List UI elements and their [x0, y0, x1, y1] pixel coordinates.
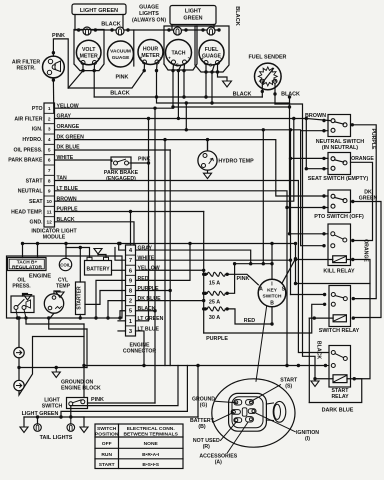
- junction switch relay right: [352, 297, 355, 300]
- wire v3 drop: [164, 140, 166, 366]
- wire pink elbow from air filter: [53, 39, 68, 88]
- junction seat bottom feed: [305, 167, 308, 170]
- junction fuel S on bus: [210, 101, 213, 104]
- wire air filter down to module pin 2: [52, 80, 54, 113]
- svg-text:2: 2: [129, 299, 132, 305]
- svg-text:PINK: PINK: [237, 276, 250, 282]
- junction white/feeder: [289, 258, 292, 261]
- junction staircase on lt green bus: [59, 415, 62, 418]
- wire engine conn yellow right: [136, 269, 204, 271]
- svg-text:BLACK: BLACK: [138, 306, 156, 312]
- svg-text:DK BLUE: DK BLUE: [138, 296, 162, 302]
- junction pto top-left: [322, 194, 325, 197]
- junction jog on orange: [185, 128, 188, 131]
- wire engine conn dkblue left: [108, 301, 126, 318]
- kill relay coil: [333, 256, 347, 263]
- junction orange/seat feeder: [289, 128, 292, 131]
- start relay: [329, 346, 351, 388]
- svg-text:COIL: COIL: [60, 262, 71, 267]
- wire starter bottom: [79, 315, 81, 319]
- svg-text:SEAT: SEAT: [29, 199, 43, 205]
- wire tach - bus to right feeder: [173, 106, 290, 108]
- junction on lamp bus: [126, 28, 129, 31]
- svg-text:LIGHT GREEN: LIGHT GREEN: [80, 8, 118, 14]
- junction tach +: [182, 69, 185, 72]
- svg-text:4: 4: [48, 137, 51, 143]
- svg-text:POSITION: POSITION: [95, 431, 119, 437]
- svg-text:11: 11: [47, 209, 52, 215]
- wire: light green box1 drop left: [74, 15, 76, 31]
- wire to hydro temp: [207, 140, 209, 151]
- headlight 1: [14, 347, 24, 357]
- svg-text:AIR FILTER: AIR FILTER: [14, 116, 42, 122]
- leader not used R: [221, 422, 237, 441]
- wire key I up: [271, 244, 273, 280]
- start relay blade: [335, 354, 344, 358]
- junction engine bus/gnd: [118, 242, 121, 245]
- junction switch relay coil right: [352, 316, 355, 319]
- svg-text:(A): (A): [215, 459, 222, 465]
- svg-text:BLACK: BLACK: [234, 6, 240, 26]
- junction park brake pink on gray drop: [147, 161, 150, 164]
- wire lt blue pin9: [55, 191, 288, 366]
- ground above cyl temp: [56, 292, 64, 297]
- junction on lamp bus: [184, 28, 187, 31]
- svg-text:RELAY: RELAY: [331, 394, 349, 400]
- junction switch relay coil left: [313, 316, 316, 319]
- wire brown branch down: [305, 119, 307, 169]
- wire v1 drop: [148, 119, 150, 321]
- wire engine conn black right: [136, 310, 156, 312]
- junction on key ign bus: [262, 262, 265, 265]
- svg-text:B•R•A•I: B•R•A•I: [142, 452, 160, 458]
- svg-text:DARK BLUE: DARK BLUE: [322, 408, 354, 414]
- wire starter top: [79, 248, 81, 283]
- tach terminal -: [172, 60, 176, 64]
- svg-text:PRESS.: PRESS.: [12, 284, 31, 290]
- svg-text:-: -: [160, 55, 162, 61]
- hour meter: [138, 40, 163, 65]
- svg-text:PURPLE: PURPLE: [370, 128, 376, 150]
- fuel sender needle: [263, 69, 274, 83]
- wire kill top-left feeder: [290, 233, 329, 235]
- junction air filter bottom: [52, 78, 55, 81]
- svg-text:IGN.: IGN.: [32, 127, 43, 133]
- ground at start relay: [311, 381, 319, 386]
- wire vertical right of table: [197, 366, 199, 418]
- svg-text:PTO: PTO: [32, 106, 43, 112]
- svg-text:(IN NEUTRAL): (IN NEUTRAL): [322, 145, 358, 151]
- kill relay: [328, 224, 351, 266]
- neutral switch SW1: [328, 115, 351, 137]
- wire kill coil left: [332, 259, 334, 261]
- key nub outer: [273, 401, 286, 422]
- light green box 1: [72, 4, 126, 15]
- svg-text:BLACK: BLACK: [281, 92, 300, 98]
- junction engine bottom 4: [79, 316, 82, 319]
- wire orange pin3: [55, 130, 325, 246]
- junction tan crossing: [297, 364, 300, 367]
- svg-text:(G): (G): [200, 402, 208, 408]
- connector body inner: [232, 397, 263, 428]
- wire fuel sender right down: [274, 83, 276, 104]
- wire: light green box1 drop right: [122, 15, 124, 31]
- wire key S node to kill relay coil: [296, 259, 333, 261]
- svg-text:MODULE: MODULE: [43, 235, 66, 241]
- key switch connector outer circle: [212, 379, 295, 447]
- junction start relay gnd: [313, 377, 316, 380]
- wire purple from neutral switch right: [351, 125, 377, 299]
- wire gray pin2: [55, 118, 307, 120]
- junction neutral top-left: [322, 119, 325, 122]
- junction gray on ign bus: [249, 262, 252, 265]
- junction on lamp bus: [217, 28, 220, 31]
- pto switch SW3: [328, 190, 351, 213]
- wire hydro temp to dk green: [207, 140, 209, 151]
- wire into neutral switch top-left: [306, 119, 331, 121]
- svg-text:(ENGAGED): (ENGAGED): [106, 176, 136, 182]
- svg-text:PURPLE: PURPLE: [206, 336, 228, 342]
- junction lt blue / pto feed: [285, 206, 288, 209]
- svg-text:A: A: [259, 287, 263, 293]
- wire fuel left drop: [205, 65, 207, 73]
- svg-text:BLACK: BLACK: [233, 92, 252, 98]
- junction purple / connector feed: [129, 210, 132, 213]
- wire pink light switch: [88, 402, 156, 404]
- wire seat switch top-left: [291, 157, 329, 159]
- svg-text:ORANGE: ORANGE: [57, 124, 80, 130]
- wire lt green bus right seg to gnd: [71, 416, 84, 418]
- wire engine conn yellow left: [112, 269, 126, 271]
- junction hour -: [155, 69, 158, 72]
- junction seat bottom-left: [322, 167, 325, 170]
- junction jog top: [185, 101, 188, 104]
- wire black fuel sender right to edge: [275, 104, 315, 379]
- junction engine bus/key I: [270, 242, 273, 245]
- fuse 30A: [204, 307, 207, 310]
- tail light right: [67, 424, 75, 432]
- svg-text:3: 3: [48, 127, 51, 133]
- svg-text:7: 7: [48, 168, 51, 174]
- junction fuel right: [216, 70, 219, 73]
- svg-text:1: 1: [48, 106, 51, 112]
- junction feeder top on black bus: [288, 95, 291, 98]
- wire engine conn ltgreen right: [136, 320, 149, 322]
- tail light left: [34, 424, 42, 432]
- junction feeder kill: [288, 232, 291, 235]
- wire fuel S drop: [212, 65, 214, 72]
- wire dark blue loop: [309, 379, 361, 403]
- wire staircase step 3: [61, 366, 187, 418]
- junction on S feeder: [294, 282, 297, 285]
- junction on lamp bus: [201, 28, 204, 31]
- junction engine bus/key S: [294, 242, 297, 245]
- wire tail light 1 stem: [37, 417, 39, 424]
- svg-text:B: B: [270, 301, 274, 307]
- fuel pod outline: [195, 26, 229, 72]
- wire S feeder vertical: [295, 259, 297, 284]
- wire purple bus bottom: [204, 304, 325, 333]
- junction tach + on black bus: [182, 95, 185, 98]
- svg-text:25 A: 25 A: [209, 299, 220, 305]
- svg-text:-: -: [97, 56, 99, 62]
- junction dk green / v3 drop: [163, 138, 166, 141]
- junction fuse bus 15A: [202, 273, 205, 276]
- leader start S: [250, 385, 281, 402]
- wire battery - to ground: [98, 255, 106, 258]
- svg-text:BLACK: BLACK: [57, 217, 75, 223]
- junction hour +: [143, 69, 146, 72]
- ground tail right: [80, 427, 88, 432]
- wire engine bottom collector B: [49, 318, 87, 329]
- seat switch SW2: [328, 153, 351, 175]
- kill relay blade: [334, 235, 343, 239]
- svg-text:SWITCH RELAY: SWITCH RELAY: [319, 328, 360, 334]
- volt meter pod outline: [74, 30, 104, 71]
- start relay coil: [333, 375, 347, 383]
- ground above oil press switch: [23, 295, 31, 300]
- wire cyl temp gnd stem: [54, 291, 60, 294]
- junction switch relay bottom-left: [323, 303, 326, 306]
- svg-text:GREEN: GREEN: [183, 16, 202, 22]
- wire v6 tach + drop: [183, 71, 185, 97]
- svg-text:RED: RED: [244, 318, 255, 324]
- junction tach S on gray: [177, 117, 180, 120]
- wire fuel sender left down: [261, 83, 263, 97]
- svg-text:GUAGE: GUAGE: [112, 55, 130, 61]
- wire into tach regulator 2: [37, 244, 39, 258]
- wire key S node lateral to right column: [296, 283, 371, 285]
- wire engine conn dkblue right: [136, 300, 204, 302]
- lamp above volt meter: [83, 27, 91, 35]
- junction volt +: [81, 69, 84, 72]
- wire tach S drop: [178, 65, 181, 70]
- junction engine bottom 5: [94, 316, 97, 319]
- svg-text:ENGINE BLOCK: ENGINE BLOCK: [61, 386, 101, 392]
- wire feeder to seat+switch relay: [290, 130, 292, 295]
- junction on lamp bus: [110, 28, 113, 31]
- wire hour - drop: [156, 64, 159, 71]
- svg-text:KEY: KEY: [267, 288, 278, 294]
- junction kill relay switch right: [351, 239, 354, 242]
- wire engine conn gray left: [119, 244, 126, 251]
- headlight 2: [14, 380, 24, 390]
- battery: [85, 261, 112, 276]
- svg-text:+: +: [140, 56, 143, 61]
- terminal G: [234, 400, 242, 405]
- wire key ignition bus: [235, 263, 272, 265]
- svg-text:LT BLUE: LT BLUE: [57, 186, 79, 192]
- wire volt - to black bus: [93, 71, 95, 97]
- svg-text:LIGHT GREEN: LIGHT GREEN: [22, 411, 59, 417]
- wire drop from orange to key ign bus: [262, 130, 264, 264]
- svg-text:GUAGE: GUAGE: [139, 5, 159, 11]
- svg-text:PINK: PINK: [116, 75, 129, 81]
- svg-text:METER: METER: [141, 53, 159, 59]
- junction brown riser on gray: [292, 117, 295, 120]
- junction pto right: [351, 200, 354, 203]
- ground tail left: [20, 427, 28, 432]
- junction kill bottom-left: [322, 244, 325, 247]
- wire purple branch into connector: [130, 212, 132, 246]
- junction tail 1: [36, 415, 39, 418]
- switch position table: [95, 424, 183, 469]
- wire engine conn purple right: [136, 290, 171, 292]
- fuel sender starburst: [258, 67, 277, 86]
- switch relay: [329, 286, 351, 327]
- svg-text:SWITCH: SWITCH: [263, 294, 282, 300]
- svg-text:FUEL SENDER: FUEL SENDER: [249, 55, 287, 61]
- svg-text:LIGHTS: LIGHTS: [139, 11, 159, 17]
- lamp above tach: [174, 27, 182, 35]
- junction engine bus/tach reg 2: [36, 242, 39, 245]
- wire volt - drop: [93, 65, 95, 71]
- svg-text:(B): (B): [198, 424, 205, 430]
- long feeder at x=289.5: [289, 97, 291, 234]
- svg-text:HYDRO.: HYDRO.: [22, 137, 43, 143]
- svg-text:START: START: [99, 462, 115, 468]
- junction tach S: [177, 69, 180, 72]
- junction on lamp bus: [77, 28, 80, 31]
- wire tach + drop: [183, 64, 186, 71]
- key nub inner: [274, 404, 281, 419]
- wire brown pin10: [55, 119, 294, 202]
- svg-text:ORANGE: ORANGE: [363, 239, 369, 262]
- wire gnd bus column: [86, 329, 88, 368]
- junction brown: [305, 117, 308, 120]
- svg-text:6: 6: [48, 158, 51, 164]
- junction on lamp bus: [94, 28, 97, 31]
- junction air filter top: [52, 51, 55, 54]
- wire white pin6 to park brake: [55, 159, 113, 161]
- junction fuel left on black bus: [204, 95, 207, 98]
- svg-text:PURPLE: PURPLE: [57, 207, 79, 213]
- junction orange/drop: [262, 128, 265, 131]
- junction starter/battery bus: [79, 246, 82, 249]
- wire key S diagonal: [282, 259, 296, 284]
- wire tail light 2 stem: [70, 417, 72, 424]
- wire black bus under gauges: [94, 96, 262, 98]
- svg-text:HYDRO TEMP: HYDRO TEMP: [218, 159, 254, 165]
- fuse 15A: [204, 273, 207, 276]
- tach: [166, 40, 192, 66]
- svg-text:TEMP: TEMP: [56, 284, 71, 290]
- wire kill coil right to start relay coil: [346, 260, 370, 379]
- junction fuel sender left: [261, 90, 264, 93]
- wire purple pin11: [55, 211, 204, 213]
- tach pod outline left/top: [164, 26, 197, 64]
- svg-text:WHITE: WHITE: [138, 256, 155, 262]
- svg-text:BROWN: BROWN: [57, 196, 77, 202]
- wire air filter to bottom junction: [52, 78, 54, 80]
- junction engine bus/coil: [64, 242, 67, 245]
- wire oil press switch gnd stem: [23, 294, 28, 297]
- svg-text:BATTERY: BATTERY: [86, 266, 110, 272]
- junction start relay bottom-left: [324, 364, 327, 367]
- fuel sender: [254, 63, 281, 90]
- wire staircase step 2: [71, 366, 178, 406]
- wire key S node up to engine bus: [295, 244, 297, 259]
- ground under fuel guage: [218, 72, 228, 81]
- wire dk blue pin5: [55, 149, 171, 151]
- wire engine conn white left: [115, 248, 126, 261]
- svg-text:SWITCH: SWITCH: [42, 404, 63, 410]
- tach pod outline right/bottom: [164, 26, 197, 70]
- ground symbol under fuel guage: [223, 81, 232, 87]
- svg-text:YELLOW: YELLOW: [138, 266, 160, 272]
- svg-text:S: S: [209, 63, 212, 68]
- junction seat top-left: [322, 157, 325, 160]
- wire hydro temp to ground: [207, 170, 209, 173]
- wire key B down: [271, 307, 273, 324]
- light green box 2: [170, 6, 216, 25]
- wire pink diagonal from volt +: [68, 71, 83, 88]
- svg-text:TAIL LIGHTS: TAIL LIGHTS: [40, 435, 73, 441]
- wire: light green box2 drop left: [171, 25, 173, 31]
- junction bus on right feeder: [288, 105, 291, 108]
- wire oil press to engine bottom 2: [24, 310, 26, 319]
- wire 30A to key B (red): [227, 309, 272, 324]
- wire light switch left down: [70, 406, 72, 417]
- wire pink from park brake switch: [131, 162, 149, 164]
- wire neutral bottom-left: [301, 130, 328, 132]
- svg-text:8: 8: [48, 178, 51, 184]
- wire engine conn red right: [136, 244, 191, 281]
- wire tan pin8 to start relay: [55, 181, 329, 353]
- junction tach - bus: [171, 105, 174, 108]
- junction kill coil right: [351, 258, 354, 261]
- terminal S slot: [246, 400, 254, 405]
- park brake switch blade: [117, 159, 126, 162]
- ground above battery: [94, 249, 102, 254]
- wire light feed column: [83, 324, 85, 398]
- air filter restriction gauge: [43, 56, 65, 78]
- wire engine conn red left: [96, 280, 126, 318]
- light switch: [67, 398, 88, 409]
- leader ignition I: [256, 413, 295, 431]
- svg-text:FUEL: FUEL: [205, 47, 219, 53]
- air filter gauge port2: [47, 70, 51, 74]
- terminal I: [248, 409, 256, 414]
- wire yellow pin1: [55, 107, 174, 109]
- air filter gauge element: [52, 61, 60, 72]
- wire engine conn purple left: [85, 291, 126, 305]
- junction key S coil: [294, 258, 297, 261]
- wire feeder to dark blue loop: [308, 318, 310, 402]
- junction 25A on ign bus: [233, 262, 236, 265]
- terminal R: [234, 418, 242, 423]
- switch relay coil: [333, 315, 346, 322]
- volt meter terminal +: [81, 61, 85, 65]
- switch relay blade: [335, 296, 344, 298]
- svg-text:TACH: TACH: [171, 51, 185, 57]
- light switch blade: [72, 400, 81, 403]
- svg-text:SWITCH: SWITCH: [97, 426, 117, 432]
- wire jog down to orange: [185, 103, 187, 130]
- junction start relay coil right: [353, 377, 356, 380]
- svg-text:10: 10: [47, 199, 53, 205]
- leader ground G: [216, 401, 237, 402]
- tach terminal +: [183, 60, 187, 64]
- junction volt -: [93, 69, 96, 72]
- svg-text:PURPLE: PURPLE: [138, 286, 160, 292]
- wire start bus: [84, 365, 326, 367]
- engine top bus: [23, 243, 296, 245]
- svg-text:BROWN: BROWN: [305, 113, 326, 119]
- wire dk green pin4 to hydro temp and pto: [55, 140, 329, 196]
- wire engine bottom collector A: [26, 318, 84, 324]
- svg-text:REGULATOR: REGULATOR: [12, 264, 42, 270]
